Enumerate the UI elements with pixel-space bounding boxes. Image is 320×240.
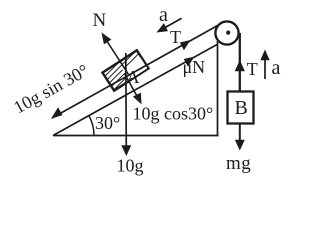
- svg-text:a: a: [159, 4, 168, 26]
- incline hypotenuse surface: [53, 44, 218, 135]
- tension T arrowhead on incline string: [180, 40, 191, 50]
- incline base line: [53, 135, 219, 137]
- svg-text:10g cos30°: 10g cos30°: [133, 104, 214, 124]
- incline vertical right side: [217, 41, 219, 136]
- block A hatched: [102, 50, 148, 90]
- pulley axle dot: [226, 30, 230, 34]
- 30 degree angle arc: [89, 116, 94, 136]
- svg-text:N: N: [93, 10, 107, 31]
- hanging string from pulley to box B: [239, 33, 241, 92]
- svg-text:mg: mg: [226, 153, 251, 174]
- svg-text:a: a: [272, 57, 281, 79]
- arrowhead 10g sin 30 (down-slope tip): [51, 107, 63, 119]
- tension T arrowhead on hanging string: [235, 60, 245, 71]
- 10g weight arrow (vertical): [125, 53, 128, 152]
- svg-text:T: T: [247, 59, 258, 79]
- acceleration a arrow (top, down-slope): [159, 18, 182, 31]
- friction muN arrowhead on incline surface: [184, 57, 195, 67]
- svg-text:μN: μN: [183, 57, 206, 77]
- box B: [228, 92, 254, 124]
- 10g cos30 arrow (perpendicular into incline): [125, 74, 141, 102]
- acceleration a arrow (right, up): [264, 54, 266, 79]
- mg weight arrow: [239, 124, 241, 147]
- pulley wheel: [215, 21, 238, 44]
- svg-text:10g: 10g: [117, 156, 144, 176]
- string along incline (also 10g sin30 line) from tip to pulley tangent: [52, 23, 221, 118]
- svg-text:10g sin 30°: 10g sin 30°: [10, 60, 92, 117]
- svg-text:T: T: [170, 27, 181, 47]
- svg-text:30°: 30°: [95, 113, 120, 133]
- svg-text:B: B: [235, 97, 248, 119]
- normal force N arrow: [103, 35, 129, 75]
